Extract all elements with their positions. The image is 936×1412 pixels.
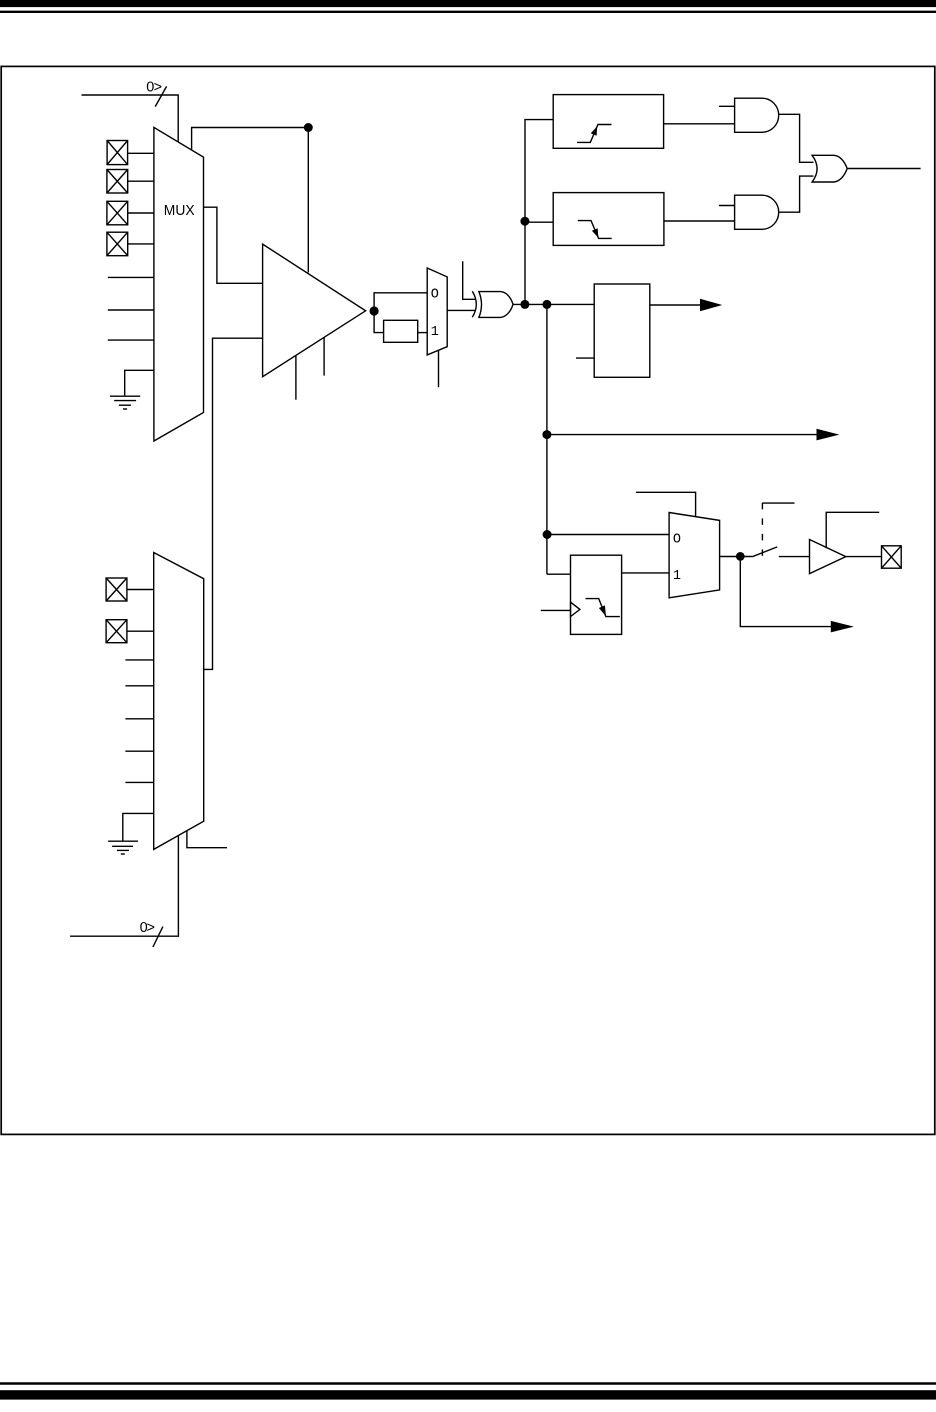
wire P3 to MUX1 (128, 212, 154, 214)
block rising edge detect (553, 95, 663, 149)
figure frame (1, 66, 935, 1134)
svg-text:MUX: MUX (164, 202, 195, 219)
footer thick rule (0, 1390, 936, 1399)
block falling edge detect (553, 193, 664, 246)
bus select top (0>) wire (82, 95, 179, 142)
bus slash (155, 86, 166, 106)
xor gate X1 (472, 291, 513, 317)
wire G2 out to or gate (779, 176, 814, 212)
wire buffer enable (826, 512, 879, 548)
header thin rule (0, 11, 936, 13)
stub comparator control 1 (295, 356, 297, 400)
input stub MUX2 in5 (125, 718, 153, 720)
mux MUX2 (lower analog input mux) (154, 553, 204, 850)
wire P6 to MUX2 (127, 630, 154, 632)
wire rail to edge detect blocks (525, 120, 553, 305)
pin pad P1 (107, 141, 128, 165)
wire MUX2 lower select stub (187, 830, 227, 847)
wire MUX1 ground input (125, 370, 154, 395)
wire sync latch Q to mux 1 input (622, 572, 670, 574)
svg-text:0>: 0> (140, 920, 155, 936)
arrow mid branch (817, 429, 840, 441)
svg-text:0>: 0> (146, 79, 161, 95)
input stub MUX1 in5 (108, 276, 154, 278)
wire to latch D input (547, 573, 571, 575)
node E rail dot (520, 217, 529, 226)
pin pad P5 (106, 578, 127, 601)
input stub MUX1 in7 (108, 339, 154, 341)
svg-text:O: O (431, 288, 439, 303)
or gate G3 (812, 155, 847, 182)
node F mid branch dot (542, 430, 551, 439)
footer thin rule (0, 1382, 936, 1385)
stub MUX3 select (438, 350, 440, 388)
stub G1 enable input (719, 105, 735, 107)
dashed enable line (761, 503, 763, 556)
wire branch down from node H (740, 556, 831, 626)
mux MUX4 (output sync select) (669, 513, 720, 598)
wire MUX2 ground input (123, 813, 154, 841)
rising edge symbol (577, 125, 611, 143)
wire G1 out to or gate (779, 114, 814, 162)
node H output dot (736, 552, 745, 561)
input stub MUX2 in4 (125, 685, 153, 687)
delay block D1 (384, 320, 418, 342)
node G sync mux dot (543, 530, 552, 539)
input stub MUX2 in7 (125, 781, 153, 783)
wire MUX4 output (720, 556, 753, 558)
wire main vertical from node D (546, 304, 548, 574)
node C xor out dot 1 (520, 300, 529, 309)
svg-text:O: O (673, 532, 681, 547)
wire xor output (513, 303, 594, 305)
wire delay block to polarity mux 1 input (418, 332, 428, 334)
stub clock input (541, 609, 571, 611)
wire latch output (650, 304, 701, 306)
ground GND2 (108, 841, 138, 854)
arrow to data bus (700, 299, 722, 312)
input stub MUX2 in3 (125, 659, 153, 661)
wire MUX1 output to comparator plus input (204, 207, 263, 283)
clock triangle (571, 602, 580, 616)
wire comparator output to polarity mux 0 input (374, 293, 427, 311)
wire falling edge block output (664, 220, 735, 222)
wire switch to buffer (779, 556, 810, 558)
wire buffer output (846, 556, 882, 558)
buffer B1 (810, 540, 846, 574)
wire comparator output to delay block (374, 311, 384, 333)
stub latch enable (576, 357, 594, 359)
wire mid branch (547, 434, 817, 436)
node A junction dot (304, 123, 313, 132)
pin pad P4 (107, 232, 128, 256)
pin pad P3 (107, 201, 128, 225)
wire rising edge block output (664, 123, 735, 125)
node B comparator output dot (370, 306, 379, 315)
svg-text:1: 1 (673, 569, 681, 584)
wire branch to falling edge block (525, 221, 553, 223)
wire xor polarity input (463, 261, 475, 299)
svg-text:1: 1 (431, 325, 439, 340)
wire P4 to MUX1 (128, 243, 154, 245)
arrow lower branch (831, 621, 854, 633)
node D xor out dot 2 (542, 300, 551, 309)
and gate G1 (735, 98, 779, 132)
ground GND1 (110, 396, 140, 409)
op-amp C1 comparator (263, 244, 366, 377)
bus slash bottom (153, 927, 163, 947)
block output latch (594, 284, 650, 377)
mux MUX1 (upper analog input mux) (154, 127, 204, 441)
pin pad OUT (882, 546, 902, 568)
mux MUX3 (sync select) (427, 268, 447, 355)
wire MUX3 out to xor (447, 309, 475, 311)
and gate G2 (735, 195, 779, 229)
wire MUX2 output to comparator minus input (204, 338, 263, 669)
wire MUX4 select (636, 492, 696, 516)
input stub MUX2 in6 (125, 750, 153, 752)
wire interrupt output (847, 168, 920, 170)
bus select bottom (0>) wire (70, 835, 178, 936)
switch blade (752, 547, 777, 557)
header thick rule (0, 0, 936, 7)
wire to sync mux 0 input (547, 534, 669, 536)
wire feedback from MUX1 top to node A (192, 128, 309, 151)
stub G2 enable input (719, 205, 735, 207)
wire enable horizontal (762, 502, 794, 504)
stub comparator control 2 (323, 337, 325, 375)
input stub MUX1 in6 (108, 309, 154, 311)
wire P5 to MUX2 (127, 589, 154, 591)
falling edge clock symbol (586, 599, 620, 617)
block sync latch (571, 555, 622, 634)
pin pad P6 (106, 620, 127, 643)
wire P2 to MUX1 (128, 180, 154, 182)
wire P1 to MUX1 (128, 152, 154, 154)
falling edge symbol (578, 221, 612, 239)
pin pad P2 (107, 170, 128, 194)
wire node A down to comparator (307, 128, 309, 273)
